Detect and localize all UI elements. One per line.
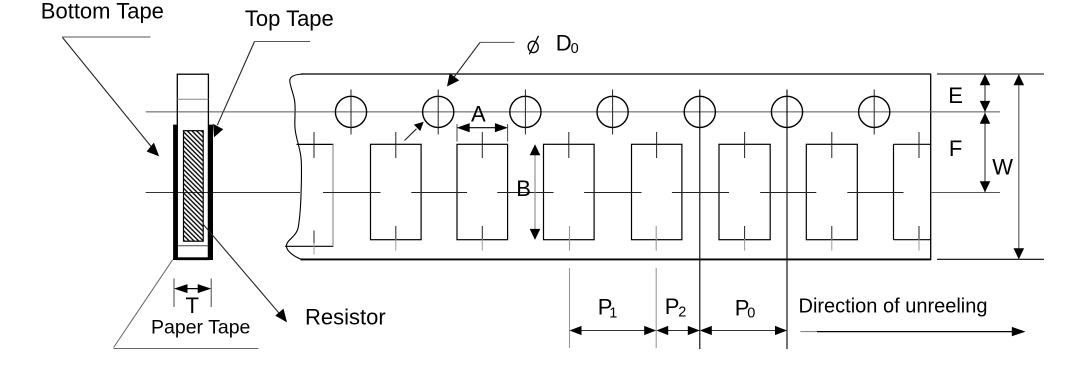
dimension T tick right xyxy=(210,279,212,308)
resistor (hatched) xyxy=(184,131,204,242)
cross-section paper tape body xyxy=(177,74,208,259)
label P2 xyxy=(665,294,687,321)
paper tape callout flare xyxy=(114,260,259,349)
svg-text:F: F xyxy=(949,136,962,161)
dimension E xyxy=(980,74,991,112)
pocket 3 xyxy=(457,144,508,239)
svg-text:E: E xyxy=(948,83,963,108)
pocket 5 bottom tick xyxy=(655,226,657,251)
pocket 8 (clipped by tape right edge) xyxy=(894,144,931,239)
label P0 xyxy=(735,295,756,321)
svg-text:B: B xyxy=(516,176,531,201)
dimension W xyxy=(1014,74,1025,259)
sprocket hole 6 xyxy=(771,96,802,127)
dimension P1 xyxy=(570,326,657,335)
top tape (thick bar right) xyxy=(209,125,213,260)
pocket 8 bottom tick xyxy=(918,226,920,251)
pocket 8 top tick xyxy=(918,132,920,158)
svg-text:P: P xyxy=(665,294,680,319)
tape bottom edge xyxy=(301,258,932,260)
sprocket hole 3 xyxy=(510,96,541,127)
P2/P0 reference line at hole 5 xyxy=(699,90,701,350)
pocket 7 top tick xyxy=(831,132,833,158)
pocket 2 xyxy=(371,144,422,239)
pocket 1 top tick xyxy=(313,132,315,158)
right side extension line top xyxy=(937,73,1044,75)
svg-text:A: A xyxy=(471,101,486,126)
svg-text:D: D xyxy=(556,31,572,56)
leader arrow Top Tape xyxy=(213,42,254,138)
pocket 2 bottom tick xyxy=(395,226,397,251)
pocket 4 xyxy=(544,144,595,239)
pocket 6 top tick xyxy=(744,132,746,158)
svg-text:2: 2 xyxy=(678,305,686,321)
sprocket hole centerline (horizontal) xyxy=(146,111,1000,113)
pocket 4 top tick xyxy=(568,132,570,158)
leader arrow Bottom Tape xyxy=(63,38,160,157)
P1 extension line right xyxy=(655,268,657,348)
pocket 1 (partial at torn edge) xyxy=(285,144,333,246)
pocket 3 bottom tick xyxy=(481,226,483,251)
dimension T tick left xyxy=(173,279,175,308)
bottom tape (thick bar left) xyxy=(173,125,177,260)
svg-text:Direction of unreeling: Direction of unreeling xyxy=(799,296,988,318)
leader underline Bottom Tape xyxy=(62,36,151,38)
crosshair hole 3 xyxy=(524,90,526,135)
svg-text:0: 0 xyxy=(747,305,755,321)
pocket 4 bottom tick xyxy=(569,226,571,251)
svg-text:Resistor: Resistor xyxy=(305,304,386,329)
dimension P2 xyxy=(656,326,700,335)
pocket 5 top tick xyxy=(656,132,658,158)
resistor leader arrow xyxy=(203,224,287,323)
cross-section pocket bottom line xyxy=(177,245,208,247)
tape right edge xyxy=(930,74,932,260)
svg-text:Bottom Tape: Bottom Tape xyxy=(41,0,164,24)
cross-section bottom thick bar xyxy=(173,257,213,260)
leader phi D0 xyxy=(447,42,515,86)
tape torn left edge (wavy) xyxy=(286,74,303,259)
svg-text:1: 1 xyxy=(609,306,617,322)
pocket 5 xyxy=(632,144,682,239)
label P1 xyxy=(598,294,617,321)
leader underline Top Tape xyxy=(255,41,311,43)
dimension phi D0 label xyxy=(527,31,579,57)
pocket 3 top tick xyxy=(481,132,483,158)
cross-section top tape inner line xyxy=(177,98,208,100)
sprocket hole 4 xyxy=(597,96,628,127)
dimension P0 xyxy=(700,326,787,335)
dimension F xyxy=(980,113,991,193)
svg-text:T: T xyxy=(186,293,199,318)
pocket 1 bottom tick xyxy=(313,231,315,255)
crosshair hole 1 xyxy=(350,90,352,135)
dimension A xyxy=(457,123,508,141)
crosshair hole 7 xyxy=(873,90,875,135)
dimension T arrows xyxy=(174,284,211,293)
sprocket hole 7 xyxy=(859,96,890,127)
tape top edge xyxy=(301,73,931,75)
sprocket hole 1 xyxy=(335,96,366,127)
sprocket hole 2 xyxy=(423,96,454,127)
pocket 7 xyxy=(806,144,857,239)
small arrow pointing at sprocket hole 2 xyxy=(405,122,424,141)
svg-text:W: W xyxy=(992,154,1013,179)
pocket 6 xyxy=(719,144,770,239)
P0 reference line at hole 6 xyxy=(786,90,788,350)
svg-text:Paper Tape: Paper Tape xyxy=(151,317,250,339)
crosshair hole 2 xyxy=(437,90,439,135)
pocket 7 bottom tick xyxy=(831,226,833,251)
P1 extension line left xyxy=(569,268,571,348)
pocket 2 top tick xyxy=(395,132,397,158)
crosshair hole 4 xyxy=(612,90,614,135)
right side extension line bottom xyxy=(937,258,1044,260)
pocket centerline through cross-section xyxy=(146,192,300,194)
dimension B xyxy=(530,144,541,240)
svg-text:0: 0 xyxy=(571,41,579,57)
pocket centerline extension right xyxy=(931,192,1000,194)
pocket 6 bottom tick xyxy=(744,226,746,251)
pocket centerline gap segments xyxy=(323,192,904,194)
sprocket hole 5 xyxy=(684,96,715,127)
direction of unreeling arrow xyxy=(800,327,1025,336)
svg-text:Top Tape: Top Tape xyxy=(245,6,334,31)
